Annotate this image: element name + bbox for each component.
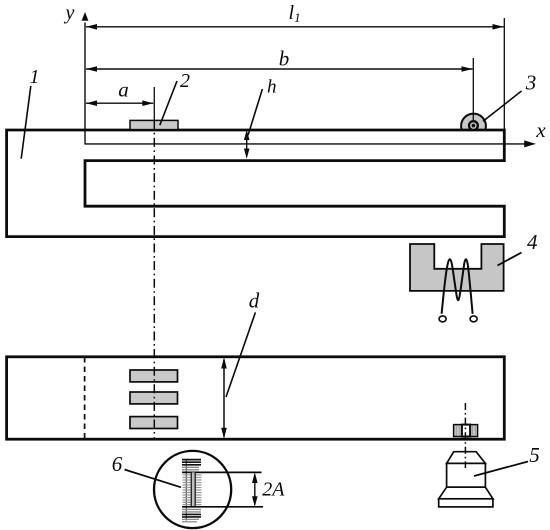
ruler left edge line <box>185 459 187 521</box>
clamp dashed line <box>84 357 86 439</box>
ruler bottom ticks <box>182 509 201 512</box>
sensor 5 cap <box>447 452 486 464</box>
dimension l1 left arrowhead <box>86 24 97 30</box>
svg-text:2: 2 <box>180 70 190 92</box>
dimension l1 right arrowhead <box>493 24 504 30</box>
ruler middle gray ticks <box>183 475 202 505</box>
ruler top dark ticks <box>182 460 201 465</box>
centerline through component 2 (dash-dot) <box>153 120 155 440</box>
leader line 2 <box>160 81 177 125</box>
electromagnet 4 yoke <box>410 244 504 291</box>
svg-text:x: x <box>535 118 546 142</box>
sensor target hatch lines <box>456 426 475 436</box>
svg-text:y: y <box>64 2 75 24</box>
leader line 4 <box>498 253 522 266</box>
svg-text:1: 1 <box>30 66 40 88</box>
sensor target middle white box <box>462 425 470 437</box>
x axis arrowhead <box>524 140 536 147</box>
beam top view rectangle <box>7 357 505 439</box>
roller 3 (dome, clipped by beam top) <box>461 114 486 139</box>
2A bottom extension line <box>182 506 263 508</box>
y axis arrowhead <box>82 12 89 21</box>
leader line d <box>226 312 255 397</box>
sensor 5 base <box>439 499 493 507</box>
dimension a line <box>86 102 153 104</box>
2A top extension line <box>182 471 262 473</box>
dimension b extension line <box>472 58 474 122</box>
dimension h double arrow <box>246 132 248 157</box>
dimension l1 extension line <box>503 18 505 130</box>
centerline through sensor 5 (dash-dot) <box>464 403 466 468</box>
svg-text:2A: 2A <box>262 478 285 500</box>
plate 3 (top view) <box>130 417 178 429</box>
svg-text:a: a <box>118 78 129 102</box>
svg-text:5: 5 <box>529 443 540 467</box>
svg-text:b: b <box>279 47 290 71</box>
dimension l1 line <box>86 26 504 28</box>
plate 2 (top view) <box>130 392 178 404</box>
sensor 5 body <box>447 463 486 487</box>
roller 3 hub ring <box>469 121 478 130</box>
svg-text:4: 4 <box>527 230 538 254</box>
roller 3 hub dot <box>472 124 476 128</box>
svg-text:h: h <box>267 77 277 98</box>
dimension a left arrowhead <box>86 100 97 106</box>
leader line 5 <box>474 462 528 477</box>
beam 1 (side view fork outline) <box>7 130 505 237</box>
leader line h <box>248 89 262 135</box>
electromagnet 4 coil <box>442 259 473 314</box>
dimension 2A double arrow <box>254 475 256 505</box>
electromagnet 4 right terminal <box>470 316 477 322</box>
svg-text:6: 6 <box>112 452 123 476</box>
dimension d double arrow <box>223 360 225 437</box>
sensor target block (left gray) <box>454 425 478 437</box>
dimension a extension line <box>153 87 155 120</box>
exciter plate 2 on beam <box>130 120 178 129</box>
dimension b left arrowhead <box>86 66 97 72</box>
x axis <box>85 143 527 145</box>
dimension b line <box>86 68 473 70</box>
svg-text:d: d <box>249 289 260 313</box>
plate 1 (top view) <box>130 370 178 382</box>
electromagnet 4 left terminal <box>439 316 446 322</box>
pointer blur band <box>191 472 195 506</box>
leader line 1 <box>21 86 31 159</box>
dimension a right arrowhead <box>142 100 153 106</box>
sensor 5 skirt <box>439 487 493 499</box>
leader line 3 <box>483 91 522 121</box>
ruler top gray ticks <box>182 467 199 470</box>
dimension b right arrowhead <box>462 66 473 72</box>
y axis <box>84 23 86 145</box>
leader line 6 <box>125 470 182 488</box>
svg-text:3: 3 <box>525 71 537 95</box>
magnifier 6 circle <box>154 451 231 528</box>
